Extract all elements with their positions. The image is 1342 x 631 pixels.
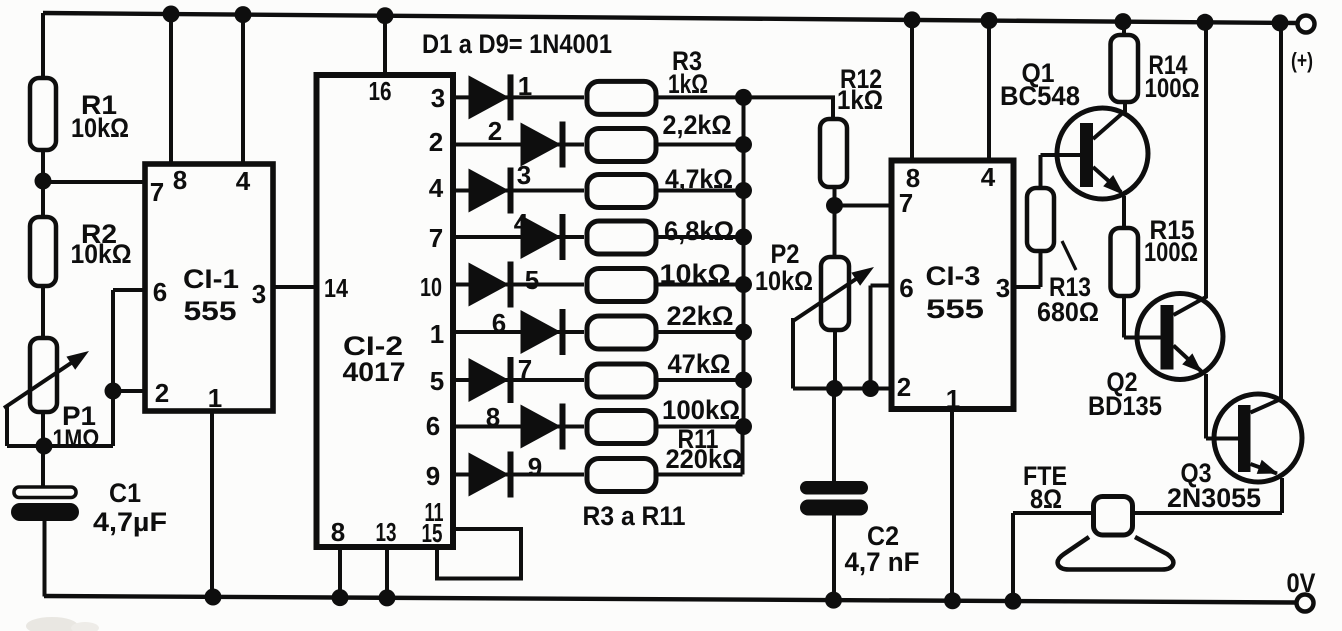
svg-text:2: 2 — [488, 116, 502, 146]
svg-text:0V: 0V — [1287, 568, 1316, 598]
svg-text:13: 13 — [376, 517, 397, 547]
svg-text:4,7µF: 4,7µF — [93, 507, 167, 537]
svg-text:8: 8 — [331, 517, 345, 547]
svg-text:BD135: BD135 — [1088, 391, 1162, 421]
svg-text:4017: 4017 — [343, 357, 406, 387]
svg-text:4: 4 — [429, 173, 444, 203]
svg-text:7: 7 — [899, 188, 913, 218]
svg-text:1MΩ: 1MΩ — [53, 424, 100, 454]
svg-text:1: 1 — [430, 319, 444, 349]
svg-text:1: 1 — [208, 383, 222, 413]
svg-text:10kΩ: 10kΩ — [660, 259, 731, 289]
svg-text:10kΩ: 10kΩ — [71, 113, 129, 143]
svg-text:3: 3 — [517, 160, 531, 190]
svg-text:4: 4 — [236, 166, 251, 196]
svg-text:5: 5 — [525, 265, 539, 295]
svg-text:8: 8 — [486, 402, 500, 432]
svg-text:100Ω: 100Ω — [1145, 73, 1200, 103]
svg-text:6: 6 — [426, 411, 440, 441]
svg-text:C1: C1 — [109, 478, 141, 508]
svg-text:CI-3: CI-3 — [926, 261, 981, 291]
svg-text:3: 3 — [431, 83, 445, 113]
svg-text:16: 16 — [369, 76, 392, 106]
svg-text:9: 9 — [426, 461, 440, 491]
svg-text:6: 6 — [899, 273, 913, 303]
svg-text:4,7kΩ: 4,7kΩ — [665, 164, 733, 194]
svg-text:3: 3 — [996, 273, 1010, 303]
svg-text:2,2kΩ: 2,2kΩ — [663, 110, 732, 140]
svg-text:8Ω: 8Ω — [1030, 484, 1062, 514]
svg-text:1kΩ: 1kΩ — [837, 85, 883, 115]
svg-text:555: 555 — [926, 294, 984, 324]
svg-text:10kΩ: 10kΩ — [755, 266, 813, 296]
svg-text:2N3055: 2N3055 — [1167, 483, 1261, 513]
svg-text:4: 4 — [981, 162, 996, 192]
svg-text:14: 14 — [324, 273, 348, 303]
svg-text:2: 2 — [155, 378, 169, 408]
svg-text:D1 a D9= 1N4001: D1 a D9= 1N4001 — [422, 29, 612, 59]
svg-text:3: 3 — [252, 279, 266, 309]
svg-text:8: 8 — [173, 165, 187, 195]
svg-text:100Ω: 100Ω — [1144, 237, 1198, 267]
svg-text:7: 7 — [429, 223, 443, 253]
svg-text:47kΩ: 47kΩ — [668, 349, 731, 379]
svg-text:7: 7 — [518, 354, 532, 384]
svg-text:10: 10 — [420, 272, 442, 302]
svg-text:555: 555 — [184, 296, 237, 326]
svg-text:7: 7 — [150, 177, 164, 207]
svg-text:BC548: BC548 — [1000, 81, 1080, 111]
svg-text:680Ω: 680Ω — [1037, 297, 1099, 327]
svg-text:R3 a R11: R3 a R11 — [583, 501, 686, 531]
svg-text:9: 9 — [528, 452, 542, 482]
svg-text:15: 15 — [422, 518, 443, 548]
svg-text:6: 6 — [153, 277, 167, 307]
svg-text:22kΩ: 22kΩ — [667, 301, 734, 331]
svg-text:CI-1: CI-1 — [183, 264, 239, 294]
svg-text:(+): (+) — [1291, 48, 1313, 73]
svg-text:2: 2 — [429, 127, 443, 157]
svg-text:5: 5 — [430, 366, 444, 396]
svg-text:220kΩ: 220kΩ — [666, 444, 743, 474]
svg-text:1: 1 — [946, 384, 960, 414]
svg-text:100kΩ: 100kΩ — [662, 395, 740, 425]
svg-text:10kΩ: 10kΩ — [71, 239, 132, 269]
svg-text:6: 6 — [492, 308, 506, 338]
svg-text:6,8kΩ: 6,8kΩ — [664, 216, 734, 246]
svg-text:P2: P2 — [771, 239, 800, 269]
svg-text:1: 1 — [518, 71, 532, 101]
svg-text:4,7 nF: 4,7 nF — [845, 547, 920, 577]
svg-text:4: 4 — [514, 208, 529, 238]
svg-text:1kΩ: 1kΩ — [668, 69, 708, 99]
svg-text:2: 2 — [897, 372, 911, 402]
